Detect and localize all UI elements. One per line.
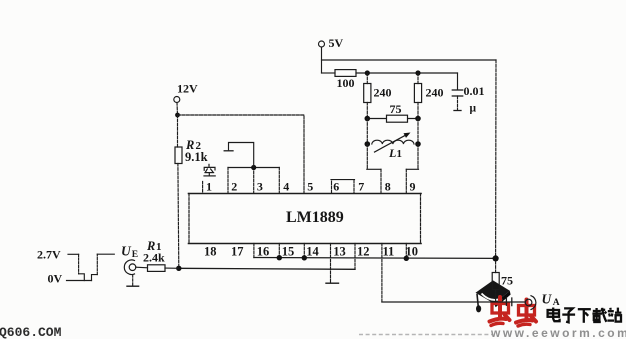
pin 14 stub — [303, 244, 305, 259]
node L1 left — [365, 141, 371, 147]
input jack terminal UE — [121, 243, 139, 286]
capacitor 0.01u — [452, 73, 484, 115]
node 75 left — [365, 116, 371, 122]
svg-text:μ: μ — [470, 103, 477, 115]
wire row2 bus R1 to pin 12 — [179, 268, 355, 269]
resistor R2 — [175, 147, 182, 164]
node L1 right — [415, 141, 421, 147]
resistor R1 — [136, 239, 179, 272]
svg-text:1: 1 — [206, 179, 212, 193]
jumper pin 6 to pin 7 — [331, 180, 355, 193]
svg-text:240: 240 — [426, 86, 444, 100]
resistor 240 left — [364, 73, 392, 119]
svg-text:4: 4 — [283, 179, 289, 193]
wire 5V top rail to right column — [322, 59, 497, 61]
wire pin 11 to output — [382, 301, 525, 303]
node R1 to row2 — [176, 266, 181, 271]
glyph zai — [592, 308, 606, 322]
wire 75 row to L1 row — [367, 119, 418, 145]
svg-text:2: 2 — [231, 179, 237, 193]
glyph dian — [548, 308, 560, 322]
svg-text:2.4k: 2.4k — [143, 250, 165, 264]
wire supply row to capacitor — [356, 72, 458, 74]
svg-text:2.7V: 2.7V — [37, 247, 61, 261]
pin 10 stub — [405, 244, 407, 259]
5V supply terminal — [319, 36, 344, 50]
label R2 9.1k — [185, 138, 208, 164]
watermark logo graduation cap — [476, 280, 511, 312]
connector ticks — [505, 299, 507, 306]
watermark red bug characters — [490, 297, 537, 326]
resistor 75 top — [367, 102, 418, 122]
svg-text:Q606.COM: Q606.COM — [0, 325, 62, 339]
wire L1 to pin 9 — [406, 144, 418, 193]
pin 15 stub — [278, 244, 280, 258]
svg-text:3: 3 — [257, 179, 263, 193]
svg-text:5V: 5V — [329, 36, 344, 50]
node pin 10 on row1 — [404, 256, 409, 261]
svg-text:9: 9 — [410, 179, 416, 193]
svg-text:12V: 12V — [177, 82, 198, 96]
svg-text:7: 7 — [358, 179, 364, 193]
svg-text:100: 100 — [337, 76, 355, 90]
glyph xia — [578, 309, 591, 323]
ground pin 13 — [326, 282, 339, 284]
node pin 3 junction — [251, 165, 256, 170]
svg-text:12: 12 — [357, 245, 370, 259]
pin 1 stub — [202, 182, 204, 194]
resistor 100 — [322, 70, 357, 90]
pin 16 stub — [253, 244, 255, 258]
svg-text:75: 75 — [501, 274, 513, 288]
wire 12V node to R2 — [177, 115, 179, 147]
node supply column on row1 — [493, 255, 499, 261]
inductor L1 — [372, 133, 414, 161]
svg-text:17: 17 — [231, 245, 244, 259]
pin 13 wire to ground — [330, 244, 332, 283]
svg-text:18: 18 — [204, 245, 217, 259]
pin 12 stub to row2 — [354, 244, 356, 270]
svg-text:1: 1 — [397, 148, 403, 160]
svg-text:6: 6 — [333, 179, 339, 193]
svg-text:75: 75 — [390, 102, 402, 116]
wire bus pins 2-3-4 — [228, 168, 279, 194]
svg-text:11: 11 — [383, 245, 395, 259]
svg-text:13: 13 — [333, 245, 346, 259]
node 240 left top — [365, 70, 370, 75]
open stub at pin 3 — [224, 143, 254, 168]
wire L1 to pin 8 — [367, 144, 381, 193]
label 空 (pin 1 open) — [204, 164, 215, 176]
wire R2 to R1 node — [177, 164, 180, 269]
svg-text:0.01: 0.01 — [464, 84, 485, 98]
svg-text:16: 16 — [257, 245, 270, 259]
svg-text:15: 15 — [282, 245, 295, 259]
svg-text:A: A — [553, 298, 560, 308]
op-amp / IC U1 LM1889 — [189, 194, 422, 244]
svg-text:240: 240 — [374, 86, 392, 100]
output section over watermark — [382, 262, 560, 310]
svg-text:L: L — [388, 146, 396, 160]
svg-text:www.eeworm.com: www.eeworm.com — [490, 326, 626, 339]
wire row1 bus — [254, 257, 496, 260]
resistor 75 output — [492, 262, 513, 302]
wire 12V node to pin 5 — [178, 115, 305, 193]
svg-text:U: U — [542, 291, 553, 306]
node pin 14 on row1 — [302, 255, 307, 260]
svg-text:U: U — [121, 243, 132, 258]
node pin 15 on row1 — [277, 255, 282, 260]
svg-text:0V: 0V — [48, 272, 63, 286]
svg-text:LM1889: LM1889 — [286, 209, 344, 226]
wire 5V down — [321, 47, 323, 73]
node 75 right — [415, 116, 421, 122]
svg-text:9.1k: 9.1k — [185, 150, 208, 164]
node 240 right top — [415, 70, 420, 75]
watermark gray dashed line — [359, 334, 493, 336]
node 12V rail junction — [175, 113, 180, 118]
svg-text:5: 5 — [307, 179, 313, 193]
glyph zi — [562, 308, 575, 322]
resistor 240 right — [414, 73, 443, 119]
output jack terminal UA — [525, 291, 560, 309]
input waveform — [67, 254, 115, 280]
svg-text:14: 14 — [306, 245, 319, 259]
wire right supply column — [495, 60, 497, 258]
glyph zhan — [607, 308, 621, 322]
svg-text:8: 8 — [385, 179, 391, 193]
watermark text dianzi xiazaizhan — [548, 308, 622, 323]
svg-text:E: E — [132, 250, 138, 260]
12V supply terminal — [174, 82, 198, 113]
pin 11 wire down — [381, 244, 383, 303]
